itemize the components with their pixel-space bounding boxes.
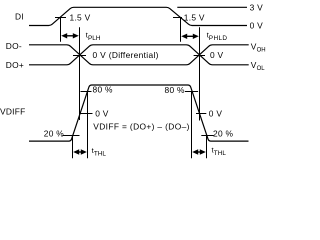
svg-text:OL: OL [257,66,266,72]
svg-text:VDIFF = (DO+) – (DO–): VDIFF = (DO+) – (DO–) [93,122,189,132]
svg-text:0 V: 0 V [95,109,109,119]
svg-text:20 %: 20 % [213,129,233,139]
svg-text:0 V: 0 V [210,50,224,60]
svg-text:DO+: DO+ [6,60,24,70]
svg-text:PHLD: PHLD [209,35,228,42]
svg-text:PLH: PLH [88,35,101,42]
svg-text:20 %: 20 % [44,129,64,139]
svg-text:DO-: DO- [6,41,22,51]
svg-text:3 V: 3 V [250,2,264,12]
svg-text:1.5 V: 1.5 V [70,12,91,22]
svg-text:OH: OH [257,47,266,53]
svg-text:1.5 V: 1.5 V [184,12,205,22]
svg-text:THL: THL [214,150,227,157]
svg-text:80 %: 80 % [93,85,113,95]
svg-text:DI: DI [15,12,24,22]
svg-text:VDIFF: VDIFF [0,107,25,117]
svg-text:THL: THL [94,151,107,158]
svg-text:0 V: 0 V [209,108,223,118]
svg-text:0 V (Differential): 0 V (Differential) [93,50,159,60]
svg-text:80 %: 80 % [165,85,185,95]
svg-text:0 V: 0 V [250,20,264,30]
